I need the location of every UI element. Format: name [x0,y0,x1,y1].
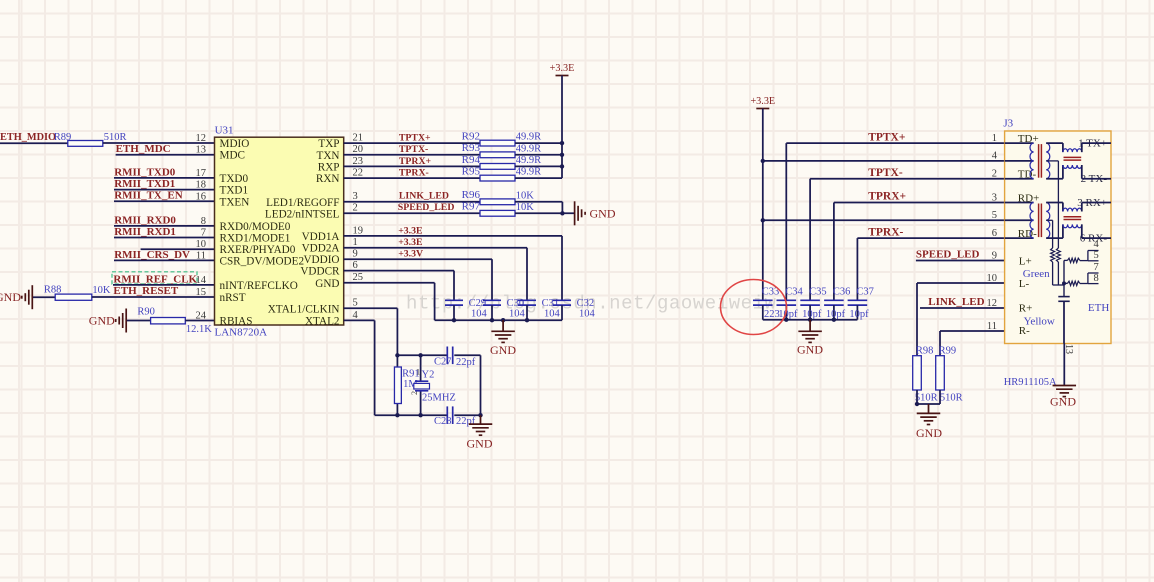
capacitor C28 22pf [434,406,476,427]
svg-text:ETH_MDC: ETH_MDC [116,143,171,155]
svg-text:13: 13 [1063,344,1074,354]
svg-text:LINK_LED: LINK_LED [928,296,984,308]
svg-text:RMII_TXD0: RMII_TXD0 [114,166,176,178]
svg-text:TPRX+: TPRX+ [399,156,432,167]
svg-text:510R: 510R [104,132,127,143]
wire U31 pin 4 (XTAL2) down [344,320,375,415]
wire U31 pin 10 stub [141,248,215,250]
svg-text:TPTX+: TPTX+ [868,131,905,143]
node TPRX- (U31 side) [399,168,429,179]
wire TPRX+ to J3 pin 3 [834,203,1005,301]
resistor R90 12.1K [137,307,212,335]
resistor R97 10K [462,201,535,217]
node +3.3V (pin 9) [398,249,423,260]
svg-text:22: 22 [353,168,364,179]
svg-text:HR911105A: HR911105A [1004,377,1057,388]
node RMII_REF_CLK (dashed selection) [112,272,198,286]
svg-text:TPTX-: TPTX- [868,167,903,179]
svg-text:C35: C35 [809,286,827,297]
svg-text:GND: GND [89,313,115,327]
capacitor C30 104 [483,298,526,320]
svg-text:TPRX-: TPRX- [868,226,903,238]
resistor R91 1M [394,355,419,415]
svg-text:GND: GND [1050,395,1076,409]
J3 left pin numbers [987,133,998,332]
wire RMII_CRS_DV to U31 pin 11 [114,259,215,261]
capacitor C32 104 [553,298,596,320]
svg-text:Yellow: Yellow [1024,315,1055,327]
svg-text:11: 11 [987,321,997,332]
J3 pin names TD+/TD-/RD+/RD- [1018,133,1039,240]
node SPEED_LED (J3 side) [916,249,980,261]
svg-text:6: 6 [353,260,358,271]
svg-text:R98: R98 [916,345,934,356]
wire U31 pin 22 to R95 [344,177,480,179]
svg-text:TXEN: TXEN [220,196,250,208]
op-amp U31 LAN8720A (PHY IC) [196,124,364,338]
svg-text:GND: GND [467,437,493,451]
svg-text:R96: R96 [462,189,481,201]
wire J3 pin 10 to R98 [917,283,1005,356]
svg-text:R88: R88 [44,285,62,296]
svg-text:25MHZ: 25MHZ [422,392,456,403]
svg-text:TPRX-: TPRX- [399,168,429,179]
wire crystal top rail [395,353,480,357]
svg-text:VDD1A: VDD1A [302,231,340,243]
capacitor C31 104 [518,298,561,320]
svg-text:GND: GND [0,290,21,304]
svg-text:RMII_TX_EN: RMII_TX_EN [114,190,183,202]
crystal Y2 25MHZ [410,355,456,415]
resistor R92 49.9R [462,131,542,147]
wire U31 pin 21 to R92 [344,142,480,144]
node RMII_TXD1 [114,178,175,190]
svg-text:GND: GND [916,426,942,440]
svg-text:3: 3 [992,192,997,203]
transformer T2 (RD) primary coil [1005,203,1034,239]
svg-text:RXER/PHYAD0: RXER/PHYAD0 [220,244,296,256]
ground GND under C29-C32 [490,320,516,357]
wire R95 to +3.3E rail [515,177,562,179]
svg-text:nRST: nRST [220,292,246,304]
resistor R95 49.9R [462,166,542,182]
J3 text ETH [1088,302,1109,314]
wire R89 to U31 pin 12 [103,142,215,144]
svg-text:8: 8 [201,216,206,227]
svg-text:49.9R: 49.9R [516,155,541,166]
svg-text:104: 104 [509,308,526,319]
capacitor chassis 1000pF [1058,297,1069,302]
svg-text:2: 2 [410,391,419,395]
wire U31 pin 1 [344,248,527,301]
J3 pins 4/5 bracket [1088,239,1100,261]
svg-text:12: 12 [987,298,998,309]
svg-text:10: 10 [196,239,207,250]
svg-text:R+: R+ [1019,303,1033,315]
wire R93 to +3.3E rail [515,154,562,156]
transformer T2 (RD) core [1039,204,1042,238]
svg-text:18: 18 [196,180,207,191]
svg-text:ETH: ETH [1088,302,1109,314]
svg-text:J3: J3 [1003,117,1013,129]
wire ETH_MDC to U31 pin 13 [116,154,215,156]
svg-text:RMII_TXD1: RMII_TXD1 [114,178,175,190]
svg-text:7: 7 [201,228,206,239]
wire U31 pin 25 [344,283,435,320]
svg-text:R97: R97 [462,201,481,213]
svg-text:104: 104 [579,308,596,319]
wire GND to R88 [33,296,55,298]
wire R94 to +3.3E rail [515,165,562,167]
svg-text:TPTX+: TPTX+ [399,133,431,144]
svg-text:VDDIO: VDDIO [303,254,339,266]
J3 text Yellow [1024,315,1055,327]
svg-text:GND: GND [315,278,339,290]
capacitor C37 10pf [848,286,874,319]
svg-text:8: 8 [1094,273,1099,284]
ground GND (right of R97) [575,201,616,225]
node TPTX- (J3 side) [868,167,903,179]
svg-text:C28: C28 [434,416,452,427]
svg-text:L+: L+ [1019,256,1032,268]
svg-text:49.9R: 49.9R [516,143,541,154]
svg-text:ETH_MDIO: ETH_MDIO [0,132,56,143]
svg-text:10pf: 10pf [802,309,822,320]
svg-text:10K: 10K [516,190,535,201]
svg-text:23: 23 [353,156,364,167]
svg-text:nINT/REFCLKO: nINT/REFCLKO [220,280,298,292]
svg-text:C34: C34 [785,286,803,297]
svg-text:5: 5 [992,210,997,221]
wire RMII_TXD0 to U31 pin 17 [114,177,215,179]
wire right side loop [480,355,482,415]
svg-text:VDDCR: VDDCR [300,266,340,278]
svg-text:RMII_RXD0: RMII_RXD0 [114,214,176,226]
wire GND rail under C33-C37 [763,318,858,322]
ground GND under R98/R99 [916,404,942,440]
node +3.3E (pin 19) [398,225,423,236]
svg-text:22pf: 22pf [456,357,476,368]
ground GND at R90 [89,309,126,333]
capacitor C34 10pf [777,286,804,319]
svg-text:510R: 510R [940,393,963,404]
junction dots on +3.3E rail [560,141,564,169]
J3 right pin names [1077,138,1107,245]
capacitor C33 223 [753,286,780,319]
power +3.3E (termination rail) [550,63,575,76]
svg-text:9: 9 [992,250,997,261]
node TPTX- (U31 side) [399,144,428,155]
wire U31 pin 23 to R94 [344,165,480,167]
svg-text:10pf: 10pf [778,309,798,320]
resistor R93 49.9R [462,142,542,158]
svg-text:CSR_DV/MODE2: CSR_DV/MODE2 [220,255,305,267]
svg-text:XTAL1/CLKIN: XTAL1/CLKIN [268,303,340,315]
wire taps join [1053,284,1064,286]
node +3.3E (pin 1) [398,237,423,248]
svg-text:TXD1: TXD1 [220,185,249,197]
svg-text:C36: C36 [833,286,851,297]
svg-text:+3.3E: +3.3E [398,237,423,248]
resistor R94 49.9R [462,154,542,170]
svg-text:12.1K: 12.1K [186,324,212,335]
svg-text:GND: GND [490,343,516,357]
svg-text:RMII_RXD1: RMII_RXD1 [114,226,176,238]
svg-text:+3.3E: +3.3E [750,96,775,107]
wire R90 to U31 pin 24 [185,320,214,322]
svg-text:24: 24 [196,311,207,322]
svg-text:49.9R: 49.9R [516,167,541,178]
svg-text:1: 1 [416,368,420,377]
wire U31 pin 5 (XTAL1) down [344,308,398,355]
svg-text:21: 21 [353,133,364,144]
svg-text:SPEED_LED: SPEED_LED [398,202,455,213]
svg-text:5: 5 [1094,250,1099,261]
ground GND under C33-C37 [797,320,823,357]
svg-text:RBIAS: RBIAS [220,316,253,328]
svg-text:20: 20 [353,144,364,155]
node TPRX- (J3 side) [868,226,903,238]
node RMII_TX_EN [114,190,183,202]
wire R97 to GND [515,211,575,215]
node RMII_TXD0 [114,166,176,178]
svg-text:TXP: TXP [318,138,339,150]
wire RMII_REF_CLK to U31 pin 14 [113,284,215,286]
ferrite zigzag RD tap [1051,248,1055,285]
svg-text:22pf: 22pf [456,416,476,427]
svg-text:MDC: MDC [220,150,246,162]
svg-text:10pf: 10pf [826,309,846,320]
ground GND at R88 [0,285,32,309]
svg-text:10K: 10K [516,202,535,213]
svg-text:104: 104 [471,308,488,319]
wire RMII_TX_EN to U31 pin 16 [114,200,215,202]
wire cap to J3 pin 13 [1063,301,1065,343]
common mode choke T2 (RD) [1046,203,1111,239]
wire R88 to U31 pin 15 [92,296,215,298]
svg-text:10: 10 [987,273,998,284]
svg-text:4: 4 [1094,239,1100,250]
svg-text:RXD0/MODE0: RXD0/MODE0 [220,221,291,233]
svg-text:U31: U31 [215,124,234,136]
wire GND rail under C29-C32 [435,318,562,322]
transformer T2 (RD) secondary coil [1046,203,1050,239]
svg-text:11: 11 [196,250,206,261]
wire LINK_LED to J3 pin 12 [920,307,1005,309]
svg-text:RMII_CRS_DV: RMII_CRS_DV [114,249,190,261]
svg-text:R94: R94 [462,154,481,166]
svg-text:GND: GND [590,206,616,220]
ferrite zigzag TD tap [1056,248,1060,285]
wire U31 pin 3 to R96 [344,201,480,203]
svg-text:19: 19 [353,225,364,236]
svg-text:13: 13 [196,145,207,156]
svg-text:RXN: RXN [316,173,340,185]
svg-text:510R: 510R [915,393,938,404]
wire J3 pin 5 center tap [763,219,1005,221]
transformer T1 (TD) primary coil [1005,143,1034,179]
ground GND under J3 [1050,386,1076,409]
svg-text:TXD0: TXD0 [220,173,249,185]
wire R96 to GND jog [515,202,562,214]
resistor 75R (pins 7/8) [1062,281,1088,285]
svg-text:5: 5 [353,298,358,309]
svg-text:LAN8720A: LAN8720A [215,326,268,338]
svg-text:3: 3 [353,191,358,202]
watermark [406,293,777,315]
svg-text:6: 6 [992,228,997,239]
wire U31 pin 19 [344,236,562,300]
svg-text:15: 15 [196,287,207,298]
svg-text:4: 4 [992,151,998,162]
node SPEED_LED (U31 side) [398,202,455,213]
wire U31 pin 6 [344,271,454,301]
wire J3 pin 11 to R99 [940,331,1005,356]
svg-text:17: 17 [196,168,207,179]
svg-text:49.9R: 49.9R [516,132,541,143]
svg-text:RXP: RXP [318,161,340,173]
svg-text:LED2/nINTSEL: LED2/nINTSEL [265,208,340,220]
svg-text:104: 104 [544,308,561,319]
wire R92 to +3.3E rail [515,142,562,144]
red ellipse highlight around C33 [721,280,787,335]
svg-text:+3.3V: +3.3V [398,249,423,260]
J3 pins 7/8 bracket [1088,262,1099,284]
svg-text:R90: R90 [137,307,155,318]
svg-text:TPRX+: TPRX+ [868,191,906,203]
wire TPTX- to J3 pin 2 [810,179,1005,301]
ground GND under crystal [467,415,493,450]
svg-text:7: 7 [1094,262,1099,273]
node LINK_LED (U31 side) [399,190,449,201]
svg-text:GND: GND [797,342,823,356]
capacitor C35 10pf [800,286,826,319]
common mode choke T1 (TD) [1046,143,1111,179]
resistor R88 10K [44,285,111,301]
wire TPTX+ to J3 pin 1 [786,143,1004,300]
power +3.3E (J3 side) [750,96,775,109]
svg-text:RXD1/MODE1: RXD1/MODE1 [220,233,291,245]
svg-text:1: 1 [353,237,358,248]
resistor R99 510R [936,345,963,403]
wire R98/R99 to GND [915,390,940,406]
capacitor C27 22pf [434,347,476,369]
node RMII_RXD0 [114,214,176,226]
resistor 75R (pins 4/5) [1064,258,1088,262]
wire GND to R90 [127,320,151,322]
J3 text Green [1023,268,1050,280]
svg-text:1: 1 [992,133,997,144]
svg-text:+3.3E: +3.3E [398,225,423,236]
capacitor C29 104 [445,298,488,320]
node ETH_RESET [113,285,178,297]
svg-text:Green: Green [1023,268,1050,280]
svg-text:C27: C27 [434,357,452,368]
svg-text:+3.3E: +3.3E [550,63,575,74]
connector J3 HR911105A [1003,117,1111,387]
node TPRX+ (J3 side) [868,191,906,203]
J3 pin 13 [1063,344,1074,386]
svg-text:ETH_RESET: ETH_RESET [113,285,178,297]
svg-text:R89: R89 [54,132,72,143]
wire SPEED_LED to J3 pin 9 [916,260,1005,262]
wire U31 pin 2 to R97 [344,212,480,214]
svg-text:25: 25 [353,272,364,283]
svg-text:16: 16 [196,191,207,202]
node ETH_MDC [116,143,171,155]
svg-text:4: 4 [353,310,359,321]
svg-text:SPEED_LED: SPEED_LED [916,249,980,261]
wire ETH_MDIO to R89 [0,142,68,144]
resistor R89 510R [54,132,127,146]
wire J3 pin 4 center tap [763,160,1005,162]
wire TPRX- to J3 pin 6 [857,238,1004,300]
wire RMII_TXD1 to U31 pin 18 [114,189,215,191]
svg-text:MDIO: MDIO [220,138,250,150]
resistor R98 510R [913,345,938,403]
wire +3.3E rail vertical [561,76,563,179]
svg-text:14: 14 [196,275,207,286]
wire U31 pin 20 to R93 [344,154,480,156]
wire TD secondary center tap [1046,161,1058,248]
svg-text:TXN: TXN [317,150,340,162]
node TPRX+ (U31 side) [399,156,432,167]
wire RMII_RXD0 to U31 pin 8 [114,225,215,227]
node TPTX+ (J3 side) [868,131,905,143]
wire RMII_RXD1 to U31 pin 7 [114,237,215,239]
node LINK_LED (J3 side) [928,296,984,308]
transformer T1 (TD) core [1039,144,1042,178]
svg-text:VDD2A: VDD2A [302,243,340,255]
svg-text:C37: C37 [856,286,874,297]
wire U31 pin 9 [344,259,492,300]
node ETH_MDIO [0,132,56,143]
svg-text:R93: R93 [462,142,481,154]
svg-text:LED1/REGOFF: LED1/REGOFF [266,197,339,209]
transformer T1 (TD) secondary coil [1046,143,1050,179]
node RMII_CRS_DV [114,249,190,261]
svg-text:12: 12 [196,133,207,144]
wire +3.3E vertical to C33 [761,109,765,301]
svg-text:2: 2 [992,169,997,180]
svg-text:R95: R95 [462,166,481,178]
svg-text:LINK_LED: LINK_LED [399,190,449,201]
wire crystal bottom rail [375,413,483,417]
capacitor C36 10pf [824,286,850,319]
svg-text:R99: R99 [939,345,957,356]
resistor R96 10K [462,189,535,205]
svg-text:2: 2 [353,203,358,214]
node TPTX+ (U31 side) [399,133,431,144]
svg-text:R92: R92 [462,131,480,143]
svg-text:9: 9 [353,249,358,260]
wire RD secondary center tap [1046,220,1052,248]
node RMII_RXD1 [114,226,176,238]
svg-text:XTAL2: XTAL2 [305,315,340,327]
svg-text:10K: 10K [92,285,111,296]
svg-text:Y2: Y2 [422,370,435,381]
svg-text:10pf: 10pf [849,309,869,320]
svg-text:TPTX-: TPTX- [399,144,428,155]
J3 pin names L+/L-/R+/R- [1019,256,1033,338]
wire common node to cap [1063,260,1065,296]
